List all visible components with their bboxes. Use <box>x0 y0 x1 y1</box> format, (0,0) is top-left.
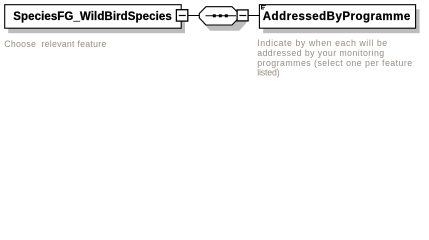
svg-text:Indicate by when each will be: Indicate by when each will be <box>257 38 387 48</box>
svg-text:listed): listed) <box>257 68 280 78</box>
svg-text:AddressedByProgramme: AddressedByProgramme <box>263 11 411 23</box>
svg-text:programmes (select one per fea: programmes (select one per feature <box>257 58 412 68</box>
svg-text:SpeciesFG_WildBirdSpecies: SpeciesFG_WildBirdSpecies <box>13 11 172 23</box>
svg-text:Choose relevant feature: Choose relevant feature <box>4 39 106 49</box>
svg-text:addressed by your monitoring: addressed by your monitoring <box>257 48 384 58</box>
